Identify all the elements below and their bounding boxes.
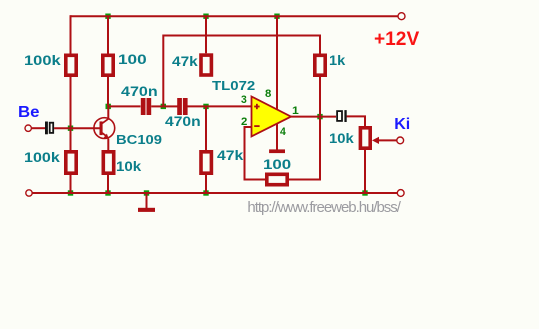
terminal input Be	[25, 125, 31, 131]
wire C2 to mid node	[151, 105, 163, 107]
node junction between 470n caps	[161, 104, 166, 109]
wire input terminal to C1	[31, 127, 45, 129]
wire 1k bottom to output node	[319, 77, 321, 117]
part label BC109 (Q1)	[116, 133, 162, 146]
value label 100 (R8)	[263, 157, 291, 171]
node junction bottom rail/R6	[105, 190, 110, 195]
wire node A to C2 470n	[108, 105, 141, 107]
capacitor C4 output (black)	[337, 110, 347, 122]
ground (op-amp pin 4)	[269, 149, 285, 153]
wire pot bottom to bottom rail	[364, 150, 366, 193]
resistor R6 10k emitter	[103, 152, 113, 173]
wire collector up to node A	[107, 106, 109, 118]
value label 470n (C2)	[121, 84, 158, 98]
wire mid node to C3 470n	[163, 105, 178, 107]
wire op-amp pin 4 down to ground	[276, 124, 278, 150]
part label TL072 (U1)	[212, 79, 255, 92]
node A collector junction	[106, 104, 111, 109]
wire rail to R3 top	[205, 16, 207, 53]
wire top rail left drop to R1	[70, 15, 72, 53]
wire R7 bottom to bottom rail	[205, 175, 207, 193]
pin number 3 (U1 +in)	[241, 95, 247, 106]
wire op-amp pin 2 down to feedback R8	[245, 127, 266, 180]
resistor R5 100k lower	[66, 152, 76, 173]
resistor R1 100k upper	[66, 55, 76, 75]
value label 100k (R5)	[24, 150, 60, 164]
transistor Q1 BC109	[94, 118, 115, 139]
wire R8 to output node	[289, 117, 320, 180]
watermark url	[247, 200, 399, 215]
resistor R4 1k	[315, 55, 325, 75]
resistor R2 100 collector	[103, 55, 113, 75]
net label Ki (output)	[394, 117, 410, 133]
ground (bottom rail)	[138, 193, 155, 212]
wire pot wiper to Ki terminal	[379, 139, 397, 141]
value label 47k (R7)	[217, 148, 243, 162]
net label Be (input)	[18, 105, 40, 121]
value label 100k (R1)	[24, 53, 61, 67]
wire caps-mid node up and over to 1k top	[163, 36, 320, 107]
wire input node to base	[71, 127, 100, 129]
value label 1k (R4)	[329, 53, 345, 67]
pin number 1 (U1 out)	[292, 106, 299, 117]
wire bottom ground rail	[32, 192, 397, 194]
value label 100 (R2)	[118, 52, 147, 66]
value label 470n (C3)	[165, 114, 201, 128]
terminal output Ki	[397, 137, 404, 144]
wire C1 to input node	[54, 127, 70, 129]
node B junction 47k/pin3	[203, 104, 208, 109]
node junction bottom rail/pot	[362, 190, 367, 195]
wire rail to R2 top	[107, 16, 109, 53]
value label 10k (R6)	[116, 159, 141, 173]
wire emitter down to R6	[107, 139, 109, 150]
wire R6 bottom to bottom rail	[107, 175, 109, 193]
node junction bottom rail/R5	[68, 190, 73, 195]
value label 47k (R3)	[172, 54, 198, 68]
value label 10k (P1)	[329, 131, 354, 145]
node junction input/bias	[68, 126, 73, 131]
wire R2 bottom to node A	[107, 77, 109, 106]
wire node B to op-amp pin 3	[206, 105, 252, 107]
node junction rail/pin8	[274, 14, 279, 19]
node junction output/1k/feedback	[317, 114, 322, 119]
terminal bottom rail right	[397, 190, 404, 197]
terminal +12V supply	[398, 13, 405, 20]
node junction bottom rail/ground	[144, 190, 149, 195]
op-amp U1 TL072	[252, 97, 292, 137]
potentiometer P1 10k body	[360, 128, 370, 148]
pin number 2 (U1 -in)	[241, 117, 247, 128]
node junction bottom rail/R7	[203, 190, 208, 195]
resistor R3 47k upper	[201, 55, 211, 75]
potentiometer P1 wiper arrow	[372, 137, 379, 144]
power label +12V	[374, 30, 419, 50]
resistor R8 100 feedback	[267, 174, 287, 184]
wire R1 bottom through input node to R5 top	[70, 77, 72, 150]
pin number 8 (U1 V+)	[265, 89, 271, 100]
wire C4 over to pot top	[347, 116, 365, 126]
resistor R7 47k lower	[201, 152, 211, 173]
wire C3 to node B	[187, 105, 206, 107]
terminal bottom rail left	[26, 190, 32, 196]
pin number 4 (U1 V-)	[280, 127, 286, 138]
wire top +12V rail	[71, 15, 399, 17]
wire rail to op-amp pin 8	[276, 16, 278, 109]
wire R5 bottom to bottom rail	[70, 175, 72, 193]
wire node B down to R7	[205, 106, 207, 150]
capacitor C1 input (black)	[45, 122, 53, 135]
node junction rail/R3	[203, 14, 208, 19]
capacitor C2 470n	[141, 98, 151, 115]
capacitor C3 470n	[177, 98, 187, 115]
wire op-amp pin 1 output	[291, 116, 336, 118]
node junction rail/R2	[105, 14, 110, 19]
